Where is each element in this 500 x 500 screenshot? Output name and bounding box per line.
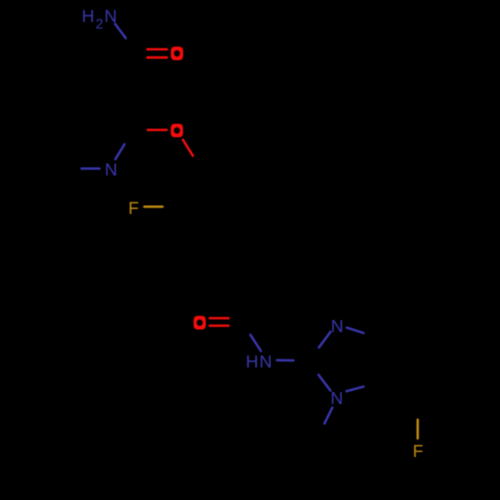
bond Npyridine-C6 [82, 167, 100, 169]
bond Npyridine-C2 [115, 144, 124, 159]
bond C2-N1 [319, 332, 331, 348]
bond C2py-Oether [148, 129, 167, 131]
label O carbonyl top [171, 47, 183, 61]
svg-text:N: N [104, 6, 117, 26]
double bond C=O top [147, 49, 167, 57]
svg-text:H: H [82, 6, 95, 26]
benzimidazole dark bonds [294, 333, 380, 387]
bond C(O)-NH [250, 335, 261, 351]
N-methyl dark half [316, 424, 325, 442]
bond N3-C3a [347, 387, 364, 392]
label O ether [171, 124, 183, 138]
svg-text:N: N [330, 388, 343, 408]
bond C2-N3 [319, 375, 331, 391]
label HN [246, 351, 272, 371]
fused benzo ring dark bonds [379, 316, 458, 420]
amide dark bonds [229, 318, 251, 335]
svg-text:N: N [105, 159, 118, 179]
svg-text:F: F [413, 441, 424, 462]
ether dark half [193, 156, 203, 171]
pyridine ring dark bonds [43, 91, 133, 169]
label H2N [82, 6, 117, 32]
bond Ftop-C2' [144, 205, 162, 207]
bond HN-C2benzimidazole [277, 359, 294, 362]
svg-text:N: N [331, 316, 344, 336]
double bond amide C=O [210, 318, 229, 326]
svg-text:N: N [259, 351, 272, 371]
CH2 linker dark bonds [244, 246, 270, 322]
bond H2N-C [115, 24, 126, 38]
bond N3-CH3 [325, 408, 333, 424]
central benzene dark bonds [163, 170, 269, 246]
bond Oether-C1' [183, 140, 193, 156]
bond N1-C7a [347, 328, 364, 333]
carboxamide dark bonds [111, 38, 148, 130]
svg-text:F: F [128, 197, 139, 218]
svg-text:H: H [246, 351, 259, 371]
label O amide [194, 316, 206, 330]
bond C4benzo-Fbottom [417, 420, 419, 439]
svg-text:2: 2 [96, 16, 104, 31]
